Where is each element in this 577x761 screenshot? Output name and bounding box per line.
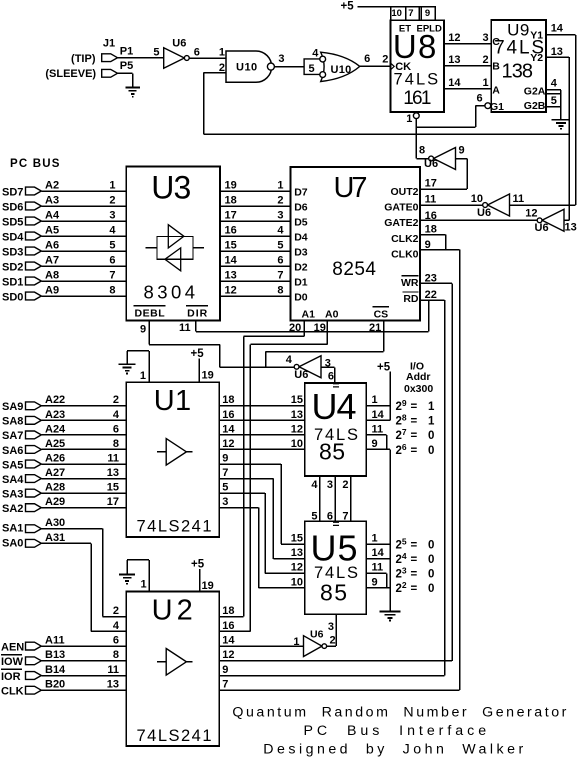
OR gate U10 pins 4,5,6	[321, 52, 360, 81]
svg-text:17: 17	[225, 209, 237, 221]
wire SA1 to U2.2	[41, 528, 102, 530]
svg-text:(SLEEVE): (SLEEVE)	[45, 68, 96, 80]
svg-text:=: =	[411, 401, 418, 413]
svg-text:SA2: SA2	[2, 503, 23, 515]
wire SA6 to U1	[41, 448, 126, 450]
svg-text:=: =	[411, 583, 418, 595]
svg-text:D3: D3	[294, 246, 308, 258]
U8 clock caret	[390, 63, 394, 70]
ground at U9 G2	[552, 120, 571, 129]
svg-text:A25: A25	[45, 438, 65, 450]
svg-text:U2: U2	[152, 595, 193, 627]
svg-text:U10: U10	[236, 62, 258, 74]
svg-text:4: 4	[551, 78, 558, 90]
svg-text:SA7: SA7	[2, 430, 23, 442]
svg-text:A7: A7	[45, 254, 59, 266]
svg-text:8254: 8254	[332, 259, 376, 280]
wire RD	[420, 299, 445, 301]
svg-text:J1: J1	[103, 38, 115, 50]
wire U4.9 to gnd bus	[366, 448, 390, 450]
svg-text:12: 12	[222, 649, 234, 661]
connector SD5	[26, 217, 42, 225]
svg-text:SA4: SA4	[2, 474, 24, 486]
connector AEN	[26, 642, 42, 650]
svg-text:2: 2	[342, 479, 348, 491]
wire P1 to U6 input	[118, 57, 164, 59]
svg-text:161: 161	[403, 88, 431, 109]
svg-text:1: 1	[140, 370, 146, 382]
wire U3 pin 13 to U7 pin 7	[220, 280, 291, 282]
svg-text:9: 9	[459, 145, 465, 157]
RD overbar	[403, 291, 419, 293]
svg-text:12: 12	[225, 284, 237, 296]
svg-text:G2A: G2A	[524, 85, 546, 97]
svg-text:13: 13	[225, 269, 237, 281]
svg-text:SD3: SD3	[2, 246, 23, 258]
svg-text:14: 14	[225, 254, 238, 266]
svg-text:85: 85	[320, 580, 347, 606]
IC U5 74LS85 box	[305, 521, 366, 614]
inverter U6 pins 1/2	[304, 636, 323, 657]
svg-text:A27: A27	[45, 467, 65, 479]
svg-text:8: 8	[109, 284, 115, 296]
svg-text:U6: U6	[310, 629, 324, 641]
wire U5.1 to gnd bus	[366, 543, 390, 545]
svg-text:(TIP): (TIP)	[71, 53, 96, 65]
wire OR out to U8 CK	[360, 65, 391, 67]
ground at J1 sleeve	[125, 88, 140, 97]
svg-text:WR: WR	[401, 277, 419, 289]
svg-text:19: 19	[202, 580, 214, 592]
connector SD4	[26, 232, 42, 240]
svg-text:7: 7	[222, 679, 228, 691]
wire SA2 to U1	[41, 507, 126, 509]
connector IOW	[26, 657, 42, 665]
svg-text:23: 23	[425, 272, 437, 284]
svg-text:+5: +5	[191, 348, 205, 360]
svg-text:3: 3	[327, 479, 333, 491]
svg-text:U6: U6	[294, 369, 308, 381]
wire U2.12 to WR net	[219, 660, 452, 662]
svg-text:SD0: SD0	[2, 291, 23, 303]
svg-text:7: 7	[222, 467, 228, 479]
svg-text:U3: U3	[151, 170, 191, 206]
wire U2.14 to U6 inverter	[219, 645, 303, 647]
svg-text:1: 1	[277, 179, 283, 191]
svg-text:27: 27	[396, 427, 407, 442]
svg-text:3: 3	[278, 53, 284, 65]
svg-text:A26: A26	[45, 452, 65, 464]
svg-text:1: 1	[372, 533, 378, 545]
wire U5.11	[366, 572, 386, 574]
svg-text:13: 13	[565, 222, 577, 234]
wire U8 to U9 row 14/1	[444, 88, 491, 90]
svg-text:11: 11	[372, 562, 384, 574]
svg-text:U4: U4	[312, 386, 357, 427]
svg-text:9: 9	[372, 576, 378, 588]
svg-text:138: 138	[502, 61, 534, 83]
svg-text:17: 17	[107, 496, 119, 508]
svg-text:11: 11	[425, 193, 437, 205]
svg-text:SA9: SA9	[2, 401, 23, 413]
svg-text:D5: D5	[294, 216, 308, 228]
svg-text:4: 4	[286, 354, 293, 366]
svg-text:A6: A6	[45, 239, 59, 251]
connector CLK	[26, 686, 42, 694]
wire U3 pin 19 to U7 pin 1	[220, 190, 291, 192]
inverter U6 pins 12/13	[542, 209, 564, 231]
wire Y1	[546, 34, 576, 36]
wire CLK to U2	[41, 689, 126, 691]
svg-text:=: =	[411, 554, 418, 566]
inverter U6 pins 8/9	[434, 148, 456, 170]
svg-text:P1: P1	[120, 46, 133, 58]
svg-text:8: 8	[113, 649, 119, 661]
svg-text:18: 18	[222, 394, 234, 406]
svg-text:6: 6	[194, 46, 200, 58]
U2 buffer symbol	[166, 649, 186, 676]
svg-text:7: 7	[277, 269, 283, 281]
svg-text:D1: D1	[294, 276, 308, 288]
svg-text:11: 11	[513, 193, 525, 205]
svg-text:14: 14	[372, 409, 385, 421]
svg-text:=: =	[411, 430, 418, 442]
svg-text:74LS241: 74LS241	[137, 727, 212, 745]
svg-text:+5: +5	[191, 559, 205, 571]
svg-text:12: 12	[525, 208, 537, 220]
svg-text:=: =	[411, 540, 418, 552]
svg-text:=: =	[411, 416, 418, 428]
svg-text:RD: RD	[403, 293, 419, 305]
NAND gate U10 pins 1,2,3	[226, 51, 272, 82]
svg-text:0: 0	[428, 540, 434, 552]
wire DEBL stub	[148, 321, 150, 345]
svg-text:PC BUS: PC BUS	[10, 158, 61, 170]
wire feedback to Y2 net	[204, 133, 569, 135]
svg-text:1: 1	[428, 401, 435, 413]
connector SD7	[26, 187, 42, 195]
U8 pin 1 bubble	[413, 113, 419, 119]
wire Y2	[546, 56, 569, 58]
svg-text:1: 1	[140, 578, 146, 590]
connector SA9	[26, 402, 42, 410]
svg-text:14: 14	[448, 77, 461, 89]
inverter U6 pins 10/11	[488, 194, 510, 216]
svg-text:U6: U6	[424, 158, 438, 170]
connector SA5	[26, 460, 42, 468]
svg-text:6: 6	[277, 254, 283, 266]
svg-text:2: 2	[109, 194, 115, 206]
U1 buffer symbol	[166, 439, 186, 466]
svg-text:29: 29	[396, 398, 407, 413]
svg-text:13: 13	[448, 54, 460, 66]
svg-text:0: 0	[428, 554, 434, 566]
wire G2A	[546, 89, 561, 91]
wire A0 stub	[326, 321, 328, 345]
svg-text:U6: U6	[172, 37, 186, 49]
connector J1 pin P1 (tip)	[102, 54, 118, 62]
WR overbar	[402, 275, 419, 277]
IC U4 74LS85 box	[305, 383, 366, 476]
svg-text:1: 1	[482, 77, 488, 89]
svg-text:2: 2	[113, 394, 119, 406]
wire U6 input from U4 pin6	[321, 366, 335, 368]
wire select net to inverter	[220, 366, 295, 368]
wire U2.7 to CLK net	[219, 689, 459, 691]
svg-text:9: 9	[140, 324, 146, 336]
svg-text:G1: G1	[490, 101, 504, 113]
wire U1.12 to U4	[219, 448, 304, 450]
wire U8 pin1 down	[415, 119, 417, 159]
svg-text:16: 16	[225, 224, 237, 236]
wire Y2 vertical	[568, 57, 570, 220]
svg-text:D4: D4	[294, 231, 308, 243]
svg-text:SA8: SA8	[2, 416, 23, 428]
wire gnd bracket U1	[127, 350, 149, 352]
wire CLK0	[420, 249, 460, 251]
svg-text:CLK0: CLK0	[391, 248, 419, 260]
wire SA8 to U1	[41, 419, 126, 421]
svg-text:SD5: SD5	[2, 216, 23, 228]
connector SA4	[26, 475, 42, 483]
wire CLK2	[420, 234, 446, 236]
svg-text:6: 6	[113, 423, 119, 435]
svg-text:A22: A22	[45, 394, 65, 406]
wire U3 pin 15 to U7 pin 5	[220, 250, 291, 252]
svg-text:11: 11	[107, 664, 119, 676]
svg-text:U8: U8	[393, 28, 437, 65]
svg-text:10: 10	[471, 193, 483, 205]
svg-text:8304: 8304	[144, 282, 196, 303]
svg-text:B14: B14	[45, 664, 66, 676]
wire Y1 vertical right edge	[575, 35, 577, 205]
wire U1.3 to U5	[219, 507, 258, 509]
wire U4.11	[366, 434, 386, 436]
wire U2.18 to A1 net	[219, 616, 243, 618]
wire WR net vertical	[451, 283, 453, 661]
wire SA7 to U1	[41, 434, 126, 436]
wire IOR to U2	[41, 675, 126, 677]
inverter U6 pins 5/6	[164, 48, 185, 69]
svg-text:IOW: IOW	[1, 656, 24, 668]
svg-text:3: 3	[328, 621, 334, 633]
svg-text:16: 16	[222, 620, 234, 632]
svg-text:11: 11	[179, 322, 191, 334]
wire U5.9 to gnd bus	[366, 587, 390, 589]
svg-text:D0: D0	[294, 291, 308, 303]
svg-text:19: 19	[225, 179, 237, 191]
IC U1 74LS241 box	[126, 382, 219, 537]
svg-text:25: 25	[396, 537, 407, 552]
svg-text:SA6: SA6	[2, 445, 23, 457]
svg-text:U7: U7	[334, 172, 368, 204]
ground below U5	[380, 612, 401, 621]
svg-text:B13: B13	[45, 649, 65, 661]
svg-text:SD4: SD4	[2, 231, 24, 243]
wire gnd bracket U2	[127, 559, 149, 561]
svg-text:13: 13	[291, 547, 303, 559]
svg-text:SA5: SA5	[2, 459, 23, 471]
wire AEN to U2	[41, 645, 126, 647]
wire U3 pin 16 to U7 pin 4	[220, 235, 291, 237]
wire box top for pin5	[546, 93, 561, 95]
svg-text:DIR: DIR	[187, 307, 208, 319]
svg-text:U6: U6	[535, 222, 549, 234]
svg-text:12: 12	[291, 423, 303, 435]
wire G2B	[546, 106, 561, 108]
svg-text:U5: U5	[311, 528, 358, 569]
svg-text:7: 7	[109, 269, 115, 281]
ground at U1 pin1	[119, 364, 136, 373]
wire gnd bus vertical	[389, 449, 391, 611]
wire GATE0	[420, 204, 484, 206]
wire SD4 to U3	[41, 235, 126, 237]
wire WR	[420, 282, 452, 284]
wire DEBL horizontal	[149, 344, 220, 346]
wire U5.14 to gnd bus	[366, 558, 390, 560]
wire U1.5 to U5	[219, 492, 265, 494]
svg-text:A31: A31	[45, 532, 65, 544]
svg-text:6: 6	[113, 635, 119, 647]
wire RD to DIR vertical	[428, 300, 430, 332]
svg-text:19: 19	[202, 370, 214, 382]
wire IOW to U2	[41, 660, 126, 662]
wire U1.18 to U4	[219, 405, 304, 407]
connector SD0	[26, 292, 42, 300]
connector SA6	[26, 446, 42, 454]
wire U2.9 to RD net	[219, 675, 444, 677]
svg-text:0: 0	[428, 445, 434, 457]
wire P5 to ground	[118, 72, 133, 74]
svg-text:14: 14	[551, 23, 564, 35]
svg-text:22: 22	[396, 580, 407, 595]
svg-text:16: 16	[222, 409, 234, 421]
svg-text:2: 2	[330, 635, 336, 647]
wire CS horizontal	[266, 351, 384, 353]
svg-text:SA1: SA1	[2, 523, 23, 535]
wire SA4 to U1	[41, 478, 126, 480]
wire U8 to U9 row 13/2	[444, 65, 491, 67]
wire Y2 to U6 input	[564, 219, 569, 221]
svg-text:4: 4	[109, 224, 116, 236]
svg-text:A30: A30	[45, 517, 65, 529]
svg-text:85: 85	[319, 439, 345, 465]
wire SA0 to U2.4	[41, 542, 91, 544]
svg-text:3: 3	[277, 209, 283, 221]
svg-text:C: C	[492, 36, 500, 48]
wire GATE2	[420, 219, 539, 221]
CS overbar	[373, 306, 390, 308]
svg-text:SA0: SA0	[2, 537, 23, 549]
svg-text:3: 3	[109, 209, 115, 221]
connector SA8	[26, 416, 42, 424]
svg-text:AEN: AEN	[1, 641, 24, 653]
wire to ground	[560, 90, 562, 120]
svg-text:=: =	[411, 445, 418, 457]
svg-text:1: 1	[109, 179, 115, 191]
svg-text:D6: D6	[294, 201, 308, 213]
svg-text:A8: A8	[45, 269, 59, 281]
svg-text:5: 5	[153, 46, 159, 58]
wire U4.4 to U5.5	[319, 476, 321, 521]
wire +5 to U8 pins	[358, 6, 391, 8]
wire U4.1 to +5	[366, 405, 390, 407]
svg-text:D2: D2	[294, 261, 308, 273]
svg-text:13: 13	[107, 467, 119, 479]
svg-text:GATE2: GATE2	[384, 217, 418, 229]
svg-text:1: 1	[428, 416, 435, 428]
svg-text:GATE0: GATE0	[384, 201, 418, 213]
svg-text:A24: A24	[45, 423, 66, 435]
wire SD0 to U3	[41, 295, 126, 297]
U9 G1 bubble	[485, 103, 491, 109]
svg-text:+5: +5	[341, 1, 355, 13]
wire U4.3 to U5.6	[334, 476, 336, 521]
svg-text:8: 8	[113, 438, 119, 450]
svg-text:0: 0	[428, 430, 434, 442]
svg-text:B20: B20	[45, 679, 65, 691]
svg-text:SD7: SD7	[2, 186, 23, 198]
svg-text:6: 6	[477, 92, 483, 104]
svg-text:17: 17	[425, 178, 437, 190]
wire split box to OR inputs	[304, 59, 320, 75]
wire A1 to U2.18	[244, 335, 305, 337]
svg-text:14: 14	[222, 423, 235, 435]
svg-text:15: 15	[291, 533, 303, 545]
wire U10 out to U10b inputs	[274, 66, 304, 68]
wire U2.16 to A0 net	[219, 630, 250, 632]
connector SD2	[26, 262, 42, 270]
svg-text:2: 2	[113, 605, 119, 617]
svg-text:A5: A5	[45, 224, 59, 236]
svg-text:6: 6	[364, 53, 370, 65]
svg-text:14: 14	[372, 547, 385, 559]
svg-text:A29: A29	[45, 496, 65, 508]
svg-text:2: 2	[482, 54, 488, 66]
IC U3 8304 box	[126, 167, 220, 321]
svg-text:A11: A11	[45, 635, 65, 647]
svg-text:9: 9	[425, 8, 430, 19]
svg-text:B: B	[492, 60, 500, 72]
wire SD5 to U3	[41, 220, 126, 222]
svg-text:CLK2: CLK2	[391, 233, 419, 245]
svg-text:22: 22	[425, 289, 437, 301]
wire U1.7 to U5	[219, 478, 273, 480]
wire U10 pin2 feedback	[204, 72, 226, 74]
svg-text:A: A	[492, 84, 500, 96]
wire U1.14 to U4	[219, 434, 304, 436]
wire SA3 to U1	[41, 492, 126, 494]
svg-text:A4: A4	[45, 209, 60, 221]
wire OUT2	[420, 188, 467, 190]
svg-text:10: 10	[391, 8, 402, 19]
svg-text:1: 1	[372, 394, 378, 406]
svg-text:A9: A9	[45, 284, 59, 296]
svg-text:8: 8	[277, 284, 283, 296]
IC U7 8254 box	[291, 167, 421, 321]
wire SA9 to U1	[41, 405, 126, 407]
connector SA0	[26, 539, 42, 547]
svg-text:SA3: SA3	[2, 488, 23, 500]
IC U2 74LS241 box	[126, 591, 219, 746]
svg-text:9: 9	[372, 438, 378, 450]
svg-text:8: 8	[419, 145, 425, 157]
connector SD6	[26, 202, 42, 210]
svg-text:9: 9	[222, 452, 228, 464]
svg-text:15: 15	[225, 239, 237, 251]
svg-text:A3: A3	[45, 194, 59, 206]
wire DIR stub	[195, 321, 197, 332]
